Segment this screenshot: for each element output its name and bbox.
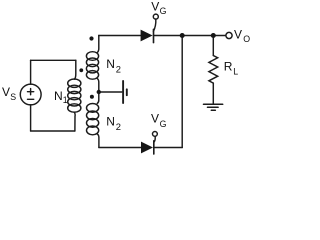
svg-text:V: V [2, 85, 10, 99]
inductor N1 loop 3 [68, 91, 81, 99]
svg-text:N: N [106, 115, 115, 129]
source minus sign [28, 98, 34, 100]
SCR U2 gate terminal circle [153, 132, 158, 137]
svg-text:G: G [160, 6, 167, 16]
center-tap ground long bar [122, 81, 124, 103]
svg-text:V: V [151, 111, 159, 125]
wire: right vertical from node A down to bottom rail [181, 36, 183, 148]
inductor N2 top loop 1 [86, 52, 98, 61]
label V_G top [151, 0, 166, 16]
inductor N2 bottom loop 2 [87, 111, 99, 120]
junction dot node A top rail left [180, 33, 185, 38]
inductor N2 top loop 2 [86, 58, 98, 67]
inductor N1 bottom stem [73, 112, 76, 131]
SCR U1 anode triangle [141, 30, 153, 42]
label N2 bottom [106, 115, 121, 132]
phasing dot N2 top [89, 36, 93, 40]
label N2 top [106, 57, 121, 74]
inductor N2 top winding top stem [97, 36, 99, 53]
inductor N1 loop 2 [68, 85, 81, 93]
inductor N2 top loop 3 [86, 64, 98, 73]
source plus sign [28, 89, 34, 95]
inductor N1 loop 1 [68, 79, 81, 87]
inductor N2 top winding bottom stem to center tap [97, 78, 99, 92]
svg-text:N: N [106, 57, 115, 71]
svg-text:G: G [160, 119, 167, 129]
wire: left loop left vertical upper (source top lead) [30, 60, 32, 84]
source V_S circle [20, 84, 41, 105]
svg-text:2: 2 [116, 63, 121, 74]
inductor N2 bottom winding top stem from center tap [97, 92, 99, 104]
SCR U1 gate terminal circle [153, 14, 158, 19]
inductor N2 bottom loop 3 [87, 119, 99, 128]
output terminal V_O open circle [226, 32, 232, 38]
svg-text:1: 1 [63, 95, 68, 105]
inductor N1 loop 4 [68, 98, 81, 106]
svg-text:2: 2 [116, 121, 121, 132]
wire: left loop left vertical lower (source bottom lead) [30, 105, 32, 131]
inductor N2 bottom loop 1 [87, 104, 99, 113]
ground bar 2 [208, 106, 219, 108]
svg-text:R: R [224, 60, 233, 74]
wire: left loop top from source column to N1 top [31, 59, 76, 61]
label N1 [54, 89, 68, 105]
svg-text:N: N [54, 89, 63, 103]
svg-text:L: L [233, 67, 238, 77]
junction dot node at R_L top [211, 33, 216, 38]
svg-text:V: V [234, 28, 242, 42]
resistor R_L bottom lead [212, 83, 214, 104]
phasing dot N1 [79, 68, 83, 72]
SCR U2 anode triangle [141, 142, 153, 154]
inductor N2 bottom winding bottom stem [97, 134, 99, 148]
svg-text:V: V [151, 0, 159, 13]
label R_L [224, 60, 238, 77]
wire: top rail from SCR1 cathode to output terminal [154, 35, 226, 37]
junction dot center tap [97, 90, 101, 94]
phasing dot N2 bottom [90, 95, 94, 99]
center-tap ground short bar [126, 89, 128, 95]
inductor N2 top loop 4 [86, 71, 98, 80]
SCR U2 cathode bar [153, 141, 155, 154]
inductor N1 primary winding top stem [74, 60, 75, 79]
resistor R_L zigzag body [209, 56, 218, 84]
label V_G bottom [151, 111, 167, 129]
wire: bottom rail from SCR2 cathode to right vertical [154, 147, 182, 149]
SCR U1 cathode bar [153, 29, 155, 42]
inductor N2 bottom loop 4 [87, 126, 99, 135]
svg-text:S: S [10, 92, 16, 102]
SCR U1 gate lead [153, 19, 155, 31]
svg-text:O: O [243, 34, 250, 44]
ground bar 3 [211, 109, 215, 111]
wire: top rail from N2 top to SCR1 anode [99, 35, 141, 37]
resistor R_L top lead [212, 36, 214, 56]
label V_S [2, 85, 16, 102]
SCR U2 gate lead [154, 136, 155, 142]
wire: left loop bottom from source column to N1 bottom [31, 130, 75, 132]
label V_O [234, 28, 250, 44]
inductor N1 loop 5 [68, 104, 81, 112]
ground bar 1 [204, 103, 223, 105]
wire: center tap to sideways ground [99, 91, 122, 93]
wire: bottom rail from N2 bottom to SCR2 anode [99, 147, 141, 149]
